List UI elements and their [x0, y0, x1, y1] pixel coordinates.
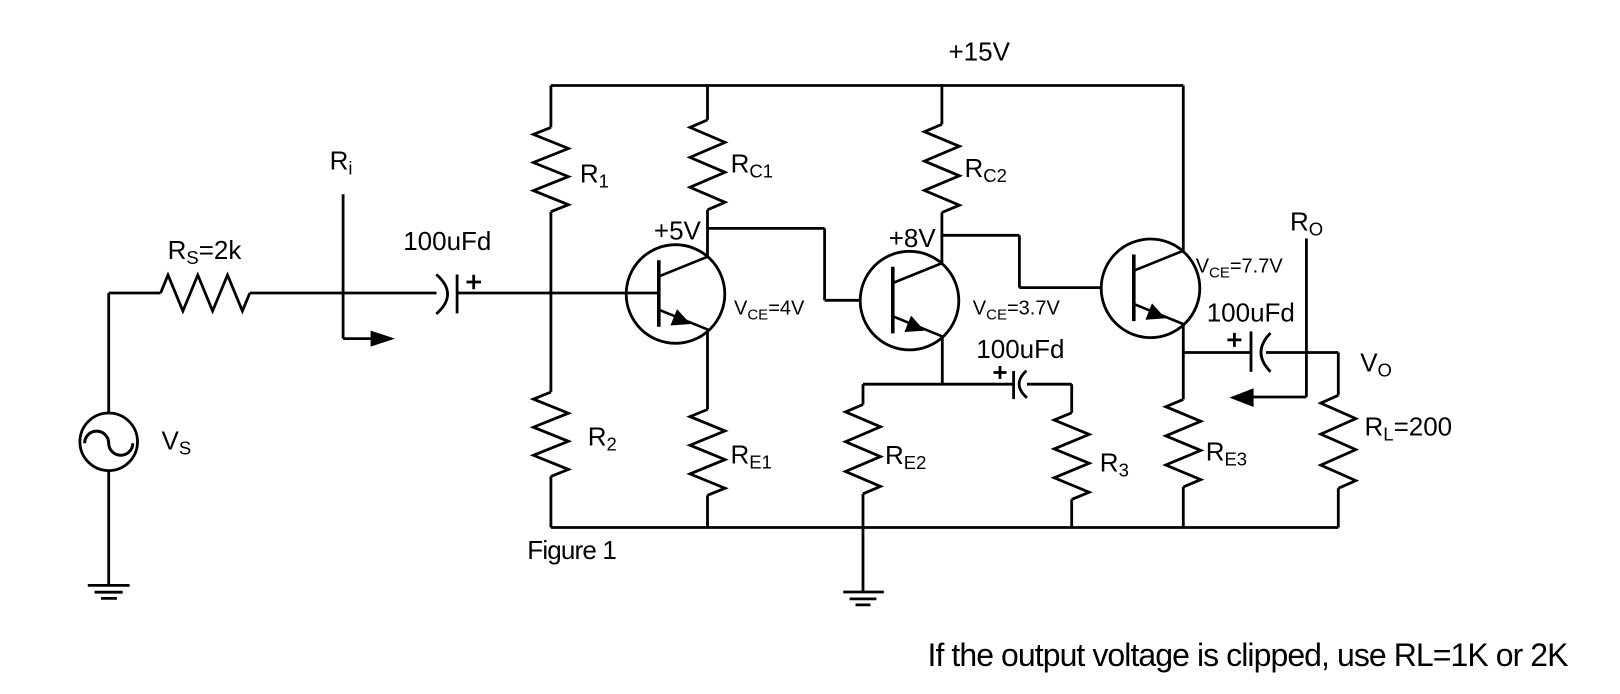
svg-text:VCE​=3.7V: VCE​=3.7V [973, 298, 1061, 324]
svg-text:RS​=2k: RS​=2k [168, 235, 243, 268]
svg-text:VO​: VO​ [1360, 348, 1392, 381]
svg-text:RC1​: RC1​ [731, 149, 773, 182]
svg-text:R1​: R1​ [580, 159, 609, 192]
svg-text:100uFd: 100uFd [1207, 298, 1295, 328]
svg-text:VS​: VS​ [162, 426, 192, 459]
svg-text:100uFd: 100uFd [976, 334, 1064, 364]
svg-text:+8V: +8V [889, 223, 937, 253]
svg-text:RO​: RO​ [1290, 207, 1323, 240]
svg-text:VCE​=7.7V: VCE​=7.7V [1196, 255, 1284, 281]
svg-text:RE3​: RE3​ [1206, 436, 1247, 469]
svg-text:+15V: +15V [949, 37, 1011, 67]
svg-text:R2​: R2​ [588, 421, 617, 454]
svg-text:+5V: +5V [654, 216, 702, 246]
svg-text:100uFd: 100uFd [403, 226, 491, 256]
svg-text:Ri​: Ri​ [330, 145, 353, 178]
svg-text:R3​: R3​ [1100, 448, 1129, 481]
svg-text:RE1​: RE1​ [731, 440, 772, 473]
svg-text:RL​=200: RL​=200 [1365, 412, 1453, 445]
svg-text:If the output voltage is clipp: If the output voltage is clipped, use RL… [928, 637, 1569, 673]
svg-text:Figure 1: Figure 1 [527, 535, 617, 565]
svg-text:RE2​: RE2​ [885, 440, 926, 473]
svg-text:VCE​=4V: VCE​=4V [734, 298, 805, 324]
svg-text:RC2​: RC2​ [965, 153, 1007, 186]
